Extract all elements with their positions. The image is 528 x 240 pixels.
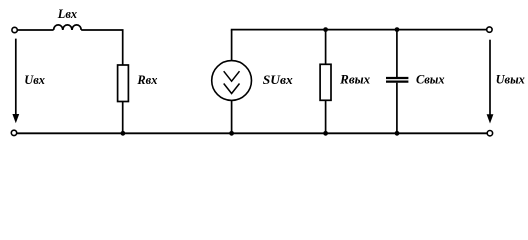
label Lвх: [57, 7, 77, 21]
current source SUвх bottom lead: [231, 100, 233, 133]
node junction dot Rвых-bottom: [323, 131, 328, 136]
svg-text:Rвых: Rвых: [339, 73, 370, 87]
node junction dot source-bottom: [229, 131, 234, 136]
wire Rвх bottom lead: [122, 102, 124, 134]
wire top bus left segment (terminal to inductor): [18, 29, 54, 31]
label SUвх: [263, 73, 293, 87]
node junction dot Rвх-bottom: [121, 131, 126, 136]
wire top bus (inductor to Rвх corner) with corner down to resistor: [81, 30, 123, 65]
svg-text:SUвх: SUвх: [263, 73, 293, 87]
wire Свых top lead: [396, 30, 398, 77]
input terminal bottom-left: [11, 130, 16, 135]
svg-text:Rвх: Rвх: [136, 73, 157, 87]
node junction dot Rвых-top: [323, 27, 328, 32]
svg-text:Uвх: Uвх: [24, 73, 45, 87]
svg-text:Lвх: Lвх: [57, 7, 77, 21]
resistor Rвх: [118, 65, 129, 102]
current source SUвх top lead: [231, 30, 233, 61]
output terminal bottom-right: [487, 131, 492, 136]
wire Rвых bottom lead: [325, 100, 327, 133]
wire Rвых top lead: [325, 30, 327, 65]
input terminal top-left: [12, 27, 17, 32]
node junction dot Свых-top: [395, 27, 400, 32]
voltage arrow Uвых: [487, 40, 494, 124]
label Rвых: [339, 73, 370, 87]
wire top bus right segment (corner above source to output terminal): [232, 29, 487, 32]
label Uвх: [24, 73, 45, 87]
capacitor Свых: [386, 78, 408, 82]
wire Свых bottom lead: [396, 83, 398, 134]
resistor Rвых: [320, 64, 331, 100]
current source SUвх: [212, 61, 252, 101]
label Свых: [416, 72, 445, 86]
svg-text:Uвых: Uвых: [496, 73, 525, 87]
output terminal top-right: [487, 27, 492, 32]
voltage arrow Uвх: [12, 39, 19, 124]
wire bottom bus: [17, 132, 487, 134]
label Uвых: [496, 73, 525, 87]
node junction dot Свых-bottom: [395, 131, 400, 136]
inductor Lвх: [54, 25, 82, 30]
svg-text:Свых: Свых: [416, 72, 445, 86]
label Rвх: [136, 73, 157, 87]
